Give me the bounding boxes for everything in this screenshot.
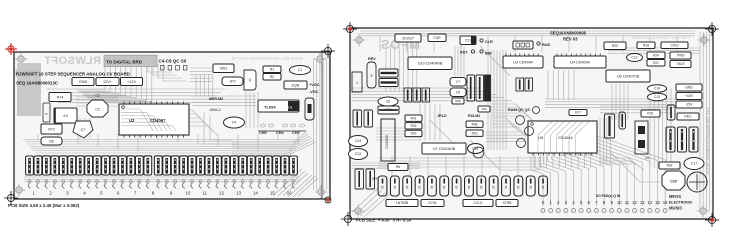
svg-text:CKOUT: CKOUT xyxy=(402,36,415,40)
svg-text:R16-M2: R16-M2 xyxy=(468,114,480,118)
svg-text:U10 CD4040B: U10 CD4040B xyxy=(418,62,443,66)
svg-text:C14: C14 xyxy=(654,87,660,91)
svg-text:-15V: -15V xyxy=(685,103,693,107)
svg-text:C22: C22 xyxy=(355,152,361,156)
svg-text:EQN: EQN xyxy=(292,83,300,87)
svg-text:-VGC: -VGC xyxy=(309,90,319,94)
svg-text:C7: C7 xyxy=(81,128,86,132)
svg-text:PCB SIZE 4.50 x 2.45 (Mar x 0.: PCB SIZE 4.50 x 2.45 (Mar x 0.062) xyxy=(8,203,80,208)
svg-text:D704: D704 xyxy=(428,201,436,205)
svg-text:R41: R41 xyxy=(411,116,417,120)
svg-text:R23: R23 xyxy=(411,132,417,136)
svg-text:REC: REC xyxy=(684,115,692,119)
svg-text:R16: R16 xyxy=(643,43,649,47)
svg-text:R2: R2 xyxy=(270,75,274,79)
svg-text:C2: C2 xyxy=(95,108,100,112)
svg-text:PCB SIZE: PCB SIZE xyxy=(356,218,376,223)
svg-text:U6 CD4070B: U6 CD4070B xyxy=(617,74,640,78)
svg-text:R23: R23 xyxy=(472,131,478,135)
svg-text:U2: U2 xyxy=(129,118,135,123)
svg-text:C12: C12 xyxy=(631,56,637,60)
svg-text:STRB: STRB xyxy=(502,201,512,205)
svg-text:SEQ16AN8000008: SEQ16AN8000008 xyxy=(550,31,587,36)
svg-text:CH4: CH4 xyxy=(276,131,284,135)
svg-text:R08: R08 xyxy=(455,99,461,103)
svg-text:8: 8 xyxy=(371,74,373,78)
svg-text:CD4067: CD4067 xyxy=(150,118,166,123)
svg-text:R46: R46 xyxy=(472,122,478,126)
svg-text:11: 11 xyxy=(202,191,207,196)
svg-text:MUSIC: MUSIC xyxy=(669,206,683,211)
svg-text:R42: R42 xyxy=(411,124,417,128)
svg-text:STP: STP xyxy=(372,177,378,181)
svg-text:13: 13 xyxy=(640,200,645,205)
svg-text:1N753B: 1N753B xyxy=(396,201,409,205)
svg-text:RUD: RUD xyxy=(542,43,550,47)
svg-text:15: 15 xyxy=(655,200,660,205)
svg-text:RLWSOFT: RLWSOFT xyxy=(44,55,101,67)
svg-text:≈ 6.30" x H= 5.30": ≈ 6.30" x H= 5.30" xyxy=(378,218,413,223)
svg-text:16: 16 xyxy=(287,191,292,196)
svg-text:U5: U5 xyxy=(538,135,544,140)
svg-text:U3 CD4094: U3 CD4094 xyxy=(513,60,533,64)
svg-text:MFOS: MFOS xyxy=(669,194,681,199)
svg-text:CH5: CH5 xyxy=(292,131,300,135)
svg-text:R32: R32 xyxy=(667,164,673,168)
svg-text:R24: R24 xyxy=(653,53,659,57)
svg-text:CLR: CLR xyxy=(485,40,493,44)
svg-text:+VGC: +VGC xyxy=(309,83,320,87)
svg-text:C17: C17 xyxy=(691,162,697,166)
svg-text:R1: R1 xyxy=(270,67,274,71)
svg-text:RJWSOFT 16 STEP SEQUENCER ANAL: RJWSOFT 16 STEP SEQUENCER ANALOG CV BOAR… xyxy=(16,72,130,77)
svg-text:BIN: BIN xyxy=(485,52,492,56)
svg-text:+15V: +15V xyxy=(685,94,694,98)
svg-text:TRIG: TRIG xyxy=(676,54,684,58)
svg-text:C010: C010 xyxy=(670,43,678,47)
svg-text:C1: C1 xyxy=(298,68,302,72)
svg-text:C2: C2 xyxy=(95,94,99,98)
svg-text:10: 10 xyxy=(185,191,190,196)
svg-text:C5: C5 xyxy=(456,90,460,94)
svg-text:TO DIGITAL BRD: TO DIGITAL BRD xyxy=(106,60,143,65)
svg-text:CD40106: CD40106 xyxy=(385,135,389,149)
svg-text:C24: C24 xyxy=(355,139,361,143)
svg-text:R20: R20 xyxy=(612,44,618,48)
svg-text:C13: C13 xyxy=(654,95,660,99)
svg-text:12: 12 xyxy=(219,191,224,196)
svg-text:C7: C7 xyxy=(456,80,460,84)
svg-text:159: 159 xyxy=(481,107,486,111)
svg-text:ELECTRONIC: ELECTRONIC xyxy=(669,201,693,205)
svg-text:U4 CD4094: U4 CD4094 xyxy=(570,60,590,64)
svg-text:JP2: JP2 xyxy=(229,80,235,84)
svg-text:GND: GND xyxy=(79,80,88,84)
svg-text:CCLK: CCLK xyxy=(473,201,483,205)
svg-text:15: 15 xyxy=(270,191,275,196)
svg-text:+12V: +12V xyxy=(127,80,136,84)
svg-text:CUP: CUP xyxy=(433,36,441,40)
svg-text:GND: GND xyxy=(685,86,693,90)
svg-text:REV: REV xyxy=(368,57,376,61)
svg-text:FOR YOU CONTROL CHOICES: FOR YOU CONTROL CHOICES xyxy=(632,35,690,40)
svg-text:R74: R74 xyxy=(57,95,64,99)
svg-text:R6: R6 xyxy=(396,165,400,169)
svg-text:R31: R31 xyxy=(647,112,653,116)
svg-text:OHMS DELAYS REVERSER TEST #1: OHMS DELAYS REVERSER TEST #1 xyxy=(231,56,303,61)
svg-text:14: 14 xyxy=(647,200,652,205)
svg-text:14: 14 xyxy=(253,191,258,196)
svg-text:OE: OE xyxy=(49,139,55,143)
svg-text:R17: R17 xyxy=(575,111,581,115)
svg-text:REV 03: REV 03 xyxy=(563,37,578,42)
svg-text:C21: C21 xyxy=(465,38,471,42)
svg-text:CD4044: CD4044 xyxy=(558,135,573,140)
svg-text:U1: U1 xyxy=(288,106,293,110)
svg-text:Q: Q xyxy=(249,78,252,82)
svg-text:SO PAD(s) Q IN: SO PAD(s) Q IN xyxy=(596,194,621,198)
svg-text:C8: C8 xyxy=(386,100,390,104)
svg-text:U7 CD4040B: U7 CD4040B xyxy=(433,147,456,151)
svg-text:C4-C8 QC S0: C4-C8 QC S0 xyxy=(159,59,187,64)
svg-text:C20: C20 xyxy=(670,180,677,184)
svg-text:SEQ 16AN8000013C: SEQ 16AN8000013C xyxy=(16,81,59,86)
svg-text:11: 11 xyxy=(625,200,630,205)
svg-text:SW1: SW1 xyxy=(220,67,228,71)
svg-text:10: 10 xyxy=(617,200,622,205)
svg-text:13: 13 xyxy=(236,191,241,196)
svg-text:R72: R72 xyxy=(48,127,55,131)
svg-text:RST: RST xyxy=(460,51,468,55)
svg-text:12: 12 xyxy=(632,200,637,205)
svg-text:C4: C4 xyxy=(232,121,236,125)
svg-text:R21: R21 xyxy=(653,61,659,65)
svg-text:TAV3: TAV3 xyxy=(677,62,685,66)
svg-text:LM: LM xyxy=(645,156,650,160)
svg-text:-BM4-2: -BM4-2 xyxy=(209,108,221,112)
svg-text:A4: A4 xyxy=(63,114,67,118)
svg-text:JP3-D: JP3-D xyxy=(437,114,447,118)
svg-text:CH0: CH0 xyxy=(259,131,267,135)
svg-text:TL094: TL094 xyxy=(264,105,276,110)
svg-text:MER-M2: MER-M2 xyxy=(209,97,223,101)
svg-text:12V+: 12V+ xyxy=(103,80,113,84)
svg-text:RA08 QC QS: RA08 QC QS xyxy=(508,108,530,112)
svg-text:S: S xyxy=(542,200,545,205)
svg-text:16: 16 xyxy=(663,200,668,205)
svg-text:16 STEP SEQUENCER ANALOG BRD 4: 16 STEP SEQUENCER ANALOG BRD 4.5.1 xyxy=(706,107,710,175)
